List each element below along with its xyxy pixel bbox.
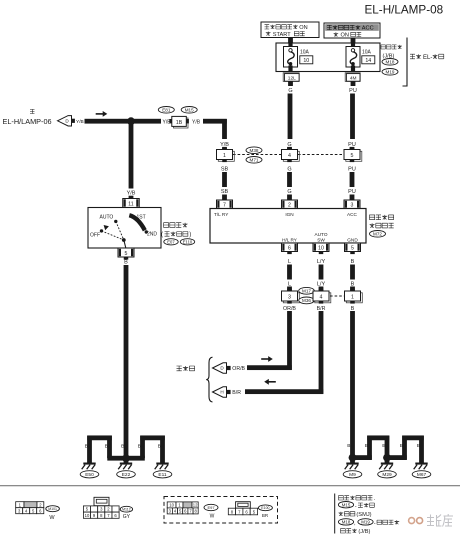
svg-text:Y/B: Y/B — [76, 119, 84, 125]
svg-text:M101: M101 — [48, 507, 57, 511]
inline connector 4 (G) — [283, 151, 299, 161]
svg-text:M72: M72 — [373, 231, 382, 236]
svg-text:B: B — [351, 281, 355, 287]
wire OR/B horizontal — [247, 365, 292, 370]
ground M29 — [385, 458, 390, 463]
bracket see EL-POWER — [403, 38, 408, 87]
svg-text:B: B — [400, 443, 403, 449]
svg-text:B: B — [347, 443, 350, 449]
notes M18 M19 fuse block — [338, 519, 353, 525]
page arrow D to EL-H/LAMP-06 — [58, 116, 72, 126]
svg-text:B: B — [158, 444, 161, 450]
svg-text:B: B — [124, 259, 128, 265]
svg-text:E110: E110 — [183, 239, 193, 244]
wire PU stub below 4M — [351, 81, 356, 86]
ground E11 — [156, 463, 168, 465]
ground bus top bar 2 — [402, 435, 424, 440]
junction dot on Y/B wire — [127, 117, 135, 125]
connector labels M17 M36 — [299, 287, 315, 294]
svg-text:OFF: OFF — [90, 233, 100, 239]
pin 3 ACC — [344, 200, 360, 209]
svg-text:ACC: ACC — [347, 212, 358, 217]
svg-text:B: B — [138, 444, 141, 450]
svg-text:AUTO: AUTO — [100, 214, 114, 220]
svg-text:B: B — [351, 306, 355, 312]
connector labels M38 M71 — [246, 147, 262, 154]
svg-text:11: 11 — [128, 202, 133, 208]
wire PU vertical to pin 3 — [350, 172, 355, 187]
svg-text:M112: M112 — [122, 507, 131, 511]
svg-text:G: G — [288, 88, 292, 94]
svg-text:START: START — [273, 32, 291, 38]
connector label M15 — [181, 107, 197, 114]
inline connector 3 (L-OR/B) — [283, 293, 299, 303]
svg-text:M71: M71 — [250, 157, 259, 162]
svg-text:5: 5 — [351, 153, 354, 159]
svg-text:G: G — [287, 167, 291, 173]
dashed group box — [164, 497, 278, 524]
svg-text:EL-H/LAMP-08: EL-H/LAMP-08 — [365, 3, 444, 16]
brace previous page — [206, 357, 212, 402]
svg-text:H/L RY: H/L RY — [282, 237, 298, 242]
svg-text:AUTO: AUTO — [315, 232, 328, 237]
connector face E97 — [167, 502, 176, 508]
svg-text:M19: M19 — [361, 519, 370, 524]
svg-text:10: 10 — [169, 503, 174, 508]
svg-text:12L: 12L — [288, 76, 296, 82]
svg-text:12: 12 — [193, 503, 198, 508]
direction arrow right on Y/B wire — [96, 113, 104, 115]
svg-text:IGN: IGN — [285, 212, 293, 217]
svg-text:ON: ON — [341, 33, 349, 39]
svg-text:M9: M9 — [349, 472, 356, 478]
inline connector 4 (L/Y-B/R) — [315, 293, 331, 303]
wire G vertical — [288, 94, 293, 140]
wire L/Y vertical — [319, 265, 324, 280]
svg-text:10: 10 — [303, 58, 309, 64]
ground M9 — [350, 458, 355, 463]
inline connector 1B — [174, 118, 189, 128]
svg-text:10A: 10A — [362, 50, 372, 56]
svg-text:E97: E97 — [207, 505, 215, 510]
svg-text:M18: M18 — [386, 59, 395, 64]
svg-text:E50: E50 — [85, 472, 94, 478]
connector label M19 — [382, 69, 398, 76]
svg-text:ACC: ACC — [362, 26, 374, 32]
junction dot M9 — [349, 454, 357, 462]
wire PU stub into connector 5 — [350, 147, 355, 149]
wire G vertical to pin 2 — [287, 172, 292, 187]
wire B/R vertical — [319, 311, 324, 394]
ground E22 — [120, 463, 132, 465]
direction arrow left on B/R wire — [268, 381, 276, 383]
svg-text:-: - — [355, 503, 357, 509]
svg-text:B: B — [417, 443, 420, 449]
pin 5 switch — [118, 248, 134, 257]
watermark weiku — [409, 518, 415, 524]
svg-text:M36: M36 — [302, 298, 311, 303]
svg-text:L: L — [288, 281, 291, 287]
svg-text:PU: PU — [348, 189, 356, 195]
svg-text:L: L — [288, 259, 291, 265]
svg-text:3: 3 — [288, 294, 291, 300]
wire Y/B horizontal — [85, 119, 162, 124]
svg-text:10: 10 — [318, 246, 324, 252]
svg-text:PU: PU — [348, 167, 356, 173]
fuse-out tag 4M — [345, 73, 360, 82]
auto light control unit box — [210, 209, 366, 244]
wire Y/B corner down to column 1 — [222, 119, 227, 139]
wire stub from ON/START box to fuse 10 — [288, 38, 293, 44]
svg-text:M15: M15 — [342, 502, 351, 507]
inline connector 1 (B-B) — [346, 293, 362, 303]
svg-text:E81: E81 — [162, 107, 171, 112]
control unit label (auto light control unit) — [370, 215, 394, 220]
svg-text:14: 14 — [365, 58, 371, 64]
pin 6 H/L RY — [282, 243, 298, 252]
svg-text:W: W — [49, 515, 55, 521]
pin 7 T/L RLY — [217, 200, 233, 209]
svg-text:5: 5 — [125, 251, 128, 257]
connector face M112 — [94, 497, 109, 505]
svg-text:(: ( — [161, 232, 163, 238]
svg-text:1: 1 — [223, 153, 226, 159]
svg-text:GND: GND — [347, 237, 358, 242]
connector label E81 — [158, 107, 174, 114]
svg-text:4M: 4M — [350, 76, 357, 82]
svg-text:): ) — [189, 232, 191, 238]
wire B/R horizontal — [245, 389, 323, 394]
condition box: ignition ON/START — [261, 22, 319, 38]
page arrow H B/R — [213, 387, 227, 397]
svg-text:7: 7 — [223, 203, 226, 209]
svg-text:B/R: B/R — [317, 306, 326, 312]
junction dot left ground bus — [122, 454, 130, 462]
dashed harness line row 1 — [233, 154, 344, 156]
pin 10 AUTO SW — [313, 243, 329, 252]
svg-text:B: B — [382, 443, 385, 449]
pin 2 IGN — [282, 200, 298, 209]
wire Y/B horizontal to corner — [203, 119, 227, 124]
inline connector 5 (PU) — [346, 151, 362, 161]
svg-text:M17: M17 — [302, 288, 311, 293]
junction dot M29 — [383, 454, 391, 462]
wire Y/B from junction down to switch — [129, 121, 134, 188]
ground bus top bar 1 — [367, 435, 389, 440]
svg-text:T/L RY: T/L RY — [214, 212, 229, 217]
svg-text:W: W — [210, 513, 215, 519]
wire G stub below 12L — [288, 81, 293, 86]
svg-text:B: B — [105, 444, 108, 450]
svg-text:OR/B: OR/B — [232, 366, 245, 372]
wire stub from ACC/ON box to fuse 14 — [351, 38, 356, 43]
svg-text:G: G — [287, 189, 291, 195]
svg-text:10A: 10A — [300, 50, 310, 56]
svg-text:SB: SB — [221, 167, 229, 173]
svg-text:M18: M18 — [342, 519, 351, 524]
ground bus left hump — [87, 435, 112, 440]
connector labels E07 E110 — [164, 239, 178, 245]
page arrow D OR/B — [213, 363, 227, 373]
svg-text:PU: PU — [349, 88, 357, 94]
svg-text:2: 2 — [288, 203, 291, 209]
svg-text:2ND: 2ND — [147, 232, 157, 238]
svg-text:3: 3 — [351, 203, 354, 209]
wire L vertical — [287, 265, 292, 280]
pin 11 switch — [123, 199, 140, 208]
svg-text:L/Y: L/Y — [317, 281, 326, 287]
svg-text:M19: M19 — [386, 69, 395, 74]
combination switch box — [88, 208, 161, 249]
connector face M101 — [16, 502, 24, 508]
svg-text:4: 4 — [288, 153, 291, 159]
svg-text:BR: BR — [262, 513, 269, 518]
svg-text:Y/B: Y/B — [192, 119, 201, 125]
svg-text:M29: M29 — [382, 472, 392, 478]
switch label (combination switch / lighting switch) — [164, 223, 188, 228]
svg-text:B: B — [365, 443, 368, 449]
svg-text:(SMJ): (SMJ) — [356, 512, 371, 518]
connector face E100 — [236, 502, 251, 509]
switch contacts and wiper — [100, 220, 148, 242]
svg-text:SB: SB — [221, 189, 229, 195]
ground bus lower bar — [107, 456, 145, 461]
wire PU vertical — [350, 94, 355, 140]
svg-text:L/Y: L/Y — [317, 259, 326, 265]
svg-text:(J/B): (J/B) — [358, 529, 370, 535]
svg-text:E07: E07 — [167, 239, 175, 244]
svg-text:H: H — [220, 390, 223, 395]
notes M15 SMJ — [338, 502, 353, 508]
svg-text:E100: E100 — [261, 506, 269, 510]
svg-text:1B: 1B — [176, 120, 183, 126]
fuse box label J/B — [381, 45, 402, 49]
fuse 10A #10 — [288, 43, 292, 47]
inline connector 1 (Y/B-SB) — [218, 151, 234, 161]
svg-text:E22: E22 — [122, 472, 131, 478]
ground bus right hump — [140, 435, 165, 440]
svg-text:B: B — [351, 259, 355, 265]
wire SB vertical — [222, 172, 227, 187]
svg-text:M15: M15 — [185, 107, 194, 112]
svg-text:GY: GY — [123, 514, 131, 520]
page ref text to EL-H/LAMP-06 — [30, 109, 35, 113]
svg-text:SW: SW — [317, 237, 325, 242]
wire B long vertical to left grounds — [124, 265, 129, 456]
wire OR/B vertical — [287, 311, 292, 370]
connector label M18 — [382, 59, 398, 66]
fuse 10A #14 — [351, 43, 355, 47]
wire G stub into connector 4 — [287, 147, 292, 149]
svg-text:B: B — [121, 444, 124, 450]
ground E50 — [83, 463, 95, 465]
ground M67 — [415, 463, 427, 465]
svg-text:6: 6 — [288, 246, 291, 252]
svg-text:10: 10 — [85, 513, 90, 518]
svg-text:M38: M38 — [250, 148, 259, 153]
ground bus dot2 to riser — [387, 455, 407, 460]
dashed harness line row 2 — [330, 295, 344, 297]
fuse-out tag 12L — [283, 73, 299, 82]
separator line — [0, 485, 460, 486]
condition box: ignition ACC/ON — [324, 23, 380, 38]
wire B long vertical to grounds — [350, 311, 355, 456]
notes text: see the following — [339, 496, 373, 500]
wire B vertical — [350, 265, 355, 280]
connector label M72 — [370, 231, 386, 238]
direction arrow right on OR/B wire — [261, 358, 269, 360]
svg-text:OR/B: OR/B — [283, 306, 296, 312]
svg-text:1: 1 — [351, 294, 354, 300]
svg-text:B/R: B/R — [232, 390, 241, 396]
svg-text:Y/B: Y/B — [127, 190, 136, 196]
svg-text:EL-H/LAMP-06: EL-H/LAMP-06 — [3, 117, 52, 126]
ground bus dot1 to riser — [353, 455, 372, 460]
svg-text:ON: ON — [299, 25, 307, 31]
svg-text:4: 4 — [320, 294, 323, 300]
fuse box J/B outline — [276, 43, 380, 72]
svg-text:B: B — [85, 444, 88, 450]
svg-text:5: 5 — [351, 246, 354, 252]
pin 5 GND — [345, 243, 361, 252]
svg-text:-: - — [374, 520, 376, 526]
text continued on previous page — [177, 366, 195, 371]
svg-text:E11: E11 — [158, 472, 167, 478]
notes block divider — [334, 494, 336, 534]
svg-text:M67: M67 — [417, 472, 427, 478]
svg-text:EL-: EL- — [423, 55, 432, 61]
